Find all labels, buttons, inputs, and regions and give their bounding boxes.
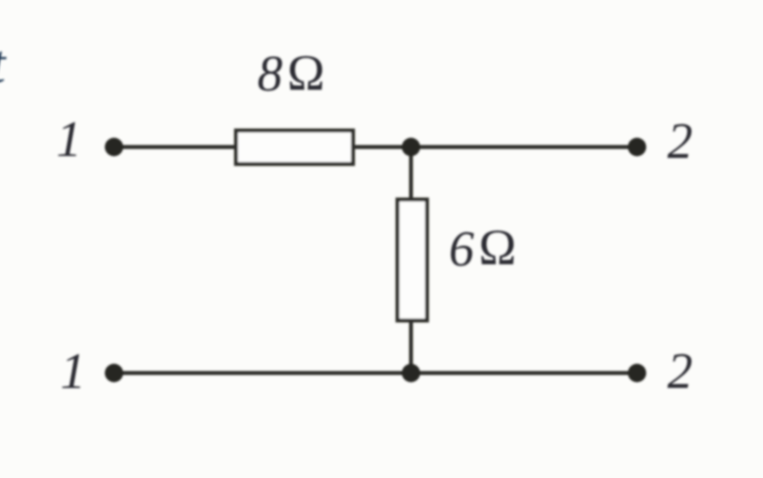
svg-text:6: 6 [449, 221, 474, 277]
svg-text:2: 2 [667, 343, 692, 399]
svg-text:1: 1 [60, 343, 85, 399]
svg-text:Ω: Ω [287, 45, 325, 101]
svg-text:Ω: Ω [479, 220, 517, 276]
svg-text:2: 2 [667, 113, 692, 169]
svg-text:1: 1 [56, 111, 81, 167]
svg-text:8: 8 [257, 46, 282, 102]
